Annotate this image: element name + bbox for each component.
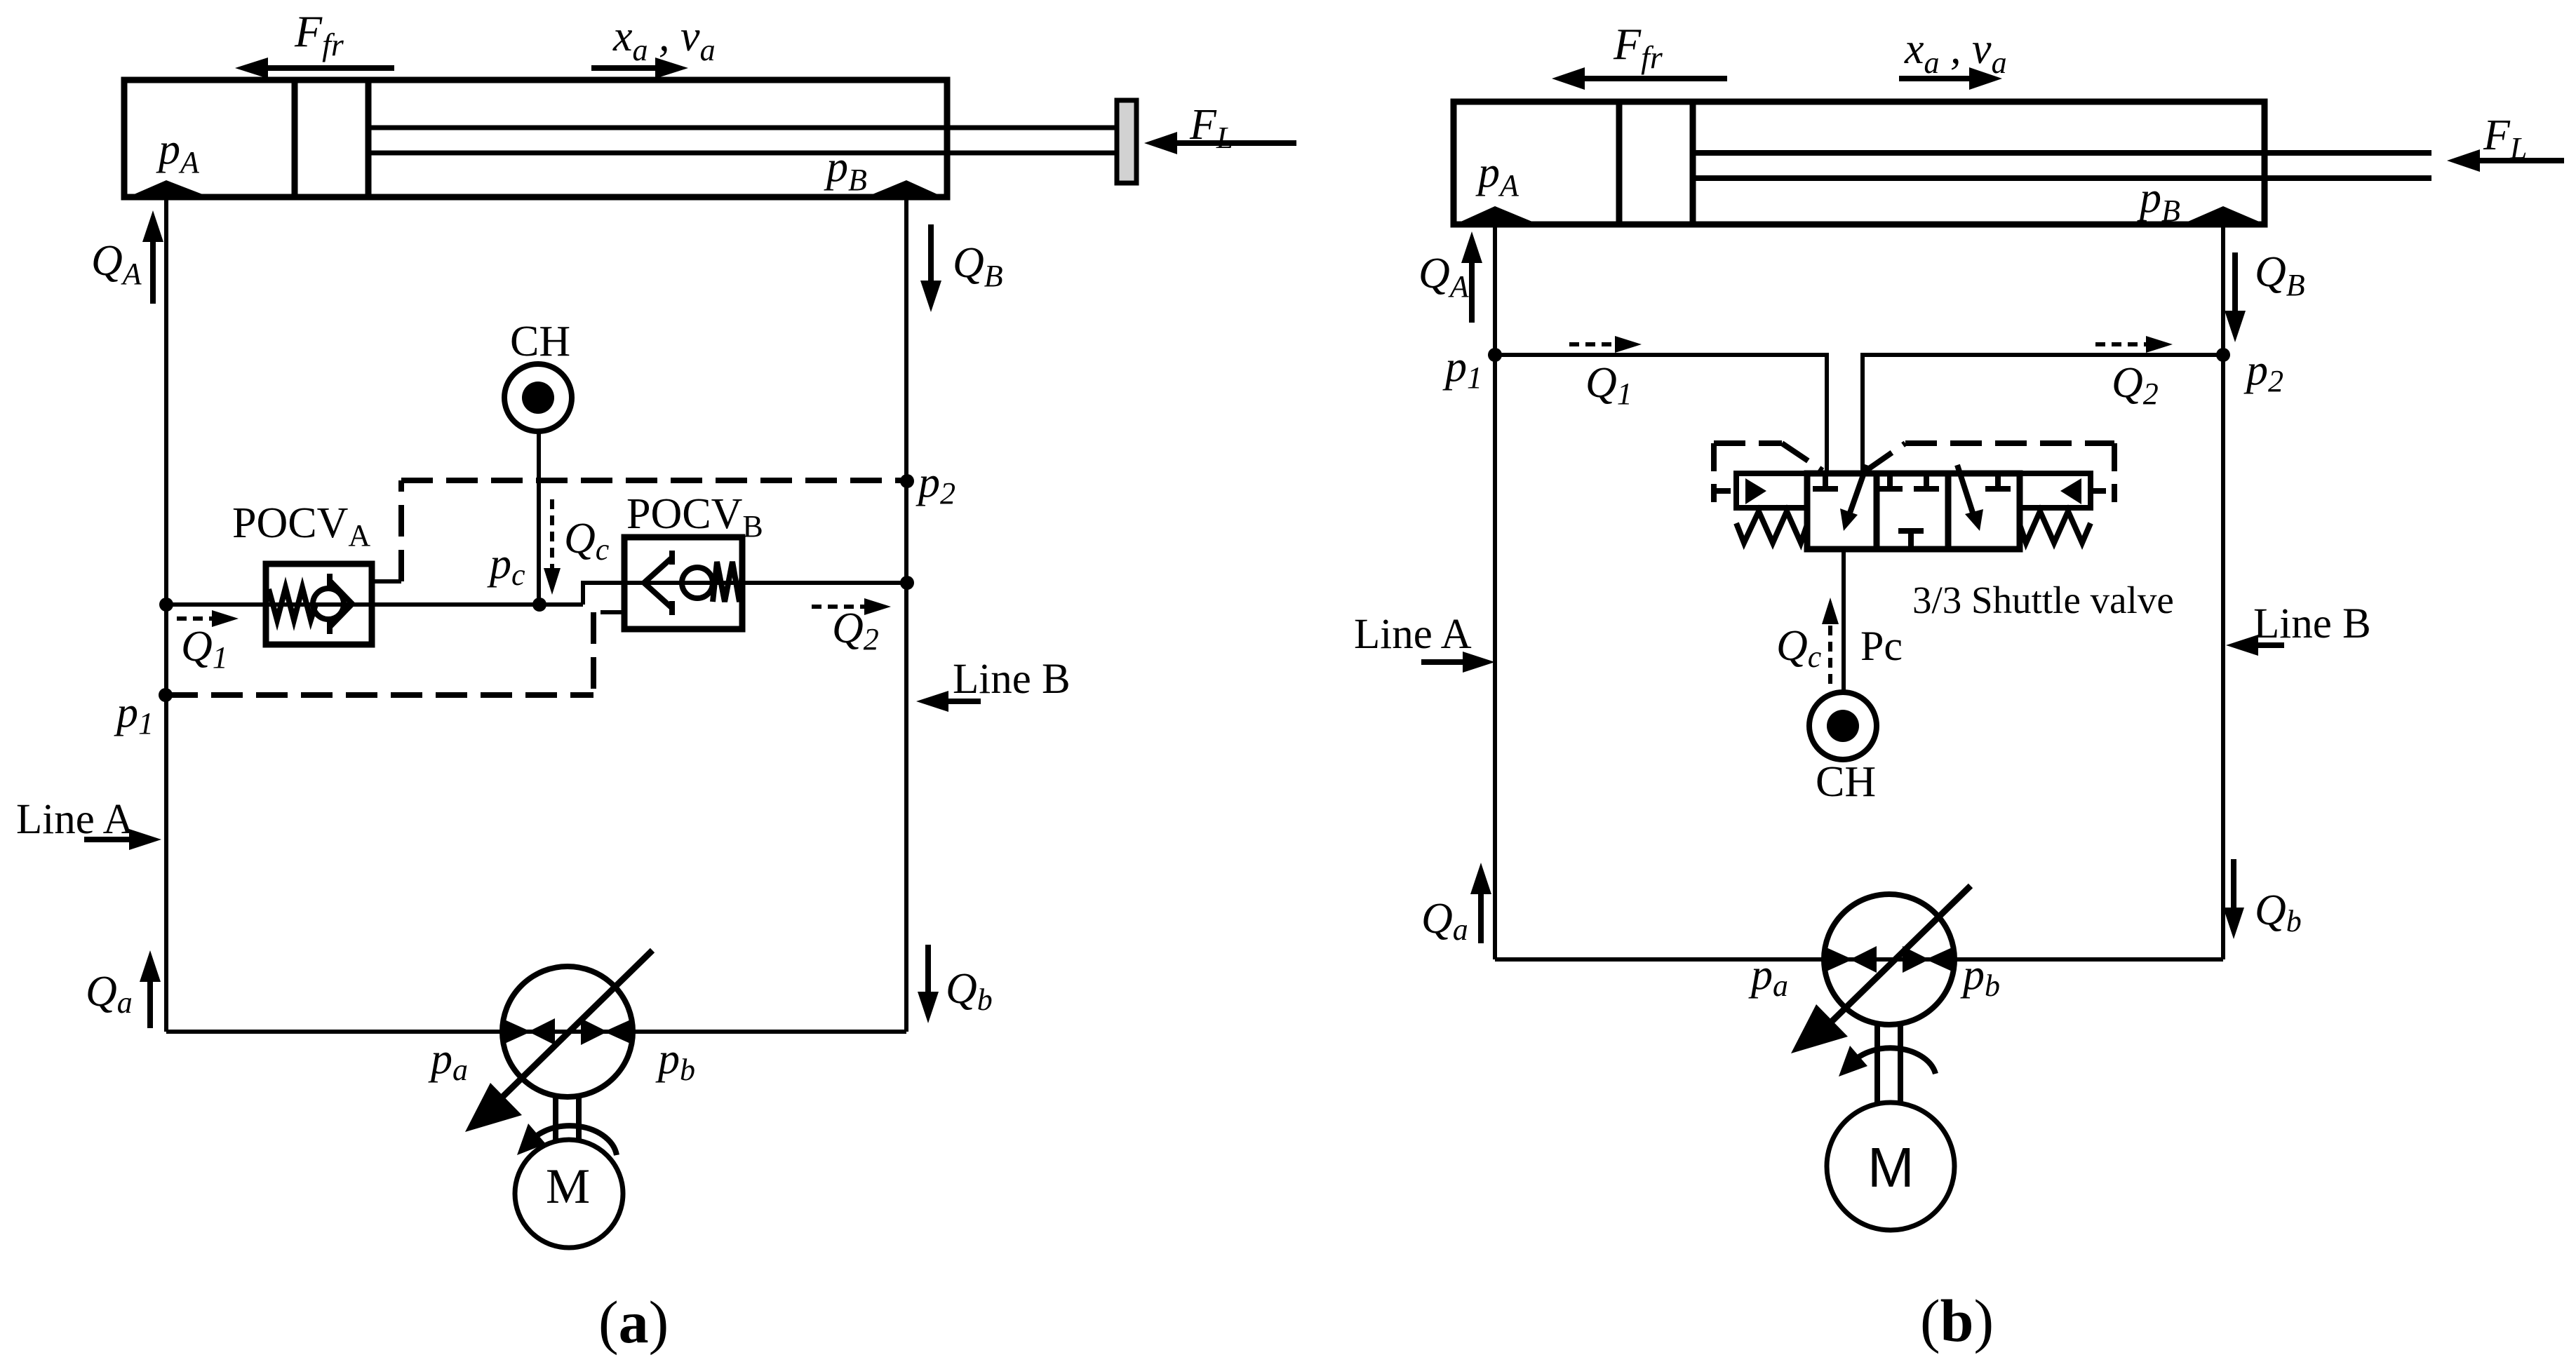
flow arrow Q_1 (b) [1569, 336, 1642, 353]
POCV_A check ball [313, 588, 344, 619]
piston (a) [295, 80, 368, 197]
friction force F_fr arrow (b) [1552, 67, 1727, 90]
POCV_A spring [269, 588, 316, 620]
valve box3 flow arrow [1957, 465, 1983, 531]
flow arrow Q_A (a) [142, 210, 163, 304]
node p2 (b) [2216, 348, 2230, 362]
svg-text:CH: CH [1816, 758, 1876, 806]
bottom wire (b) [1495, 957, 2223, 962]
POCV_A pilot stub [372, 579, 401, 584]
flow arrow Q_1 (a) [177, 610, 239, 627]
flow arrow Q_a (a) [140, 950, 161, 1028]
shuttle valve dashed outline [1714, 443, 2114, 502]
valve box1 flow arrow [1840, 465, 1867, 531]
Line A arrow (b) [1421, 652, 1495, 673]
wire line A vertical (a) [164, 198, 168, 1032]
POCV_B box [624, 537, 742, 629]
valve box3 blocked port [1985, 473, 2011, 489]
shuttle valve right pilot box [2020, 473, 2091, 508]
flow arrow Q_a (b) [1470, 863, 1491, 943]
POCV_B spring [713, 562, 742, 602]
cylinder (b) barrel [1454, 102, 2265, 224]
POCV_B check ball [682, 567, 713, 598]
port A triangle (a) [128, 180, 210, 197]
rotation arrow (a) [517, 1124, 617, 1155]
pump (b) triangles [1823, 946, 1955, 973]
bottom wire (a) [166, 1030, 906, 1034]
flow arrow Q_b (a) [918, 945, 939, 1023]
node valve outlet (a) [900, 576, 914, 590]
node p1 (b) [1488, 348, 1502, 362]
valve box1 blocked port [1813, 473, 1838, 489]
pump (a) triangles [502, 1018, 633, 1045]
cylinder (a) barrel [124, 80, 947, 197]
svg-text:3/3 Shuttle valve: 3/3 Shuttle valve [1912, 579, 2174, 621]
wire CH to node p_c (a) [537, 431, 541, 605]
POCV_A seat [330, 574, 352, 634]
motor (b) circle [1827, 1102, 1954, 1230]
x_a , v_a arrow (b) [1899, 67, 2002, 90]
node at line A junction (a) [159, 598, 173, 612]
valve box2 blocked ports [1877, 473, 1939, 549]
main valve line left segment (a) [166, 602, 583, 607]
svg-text:Line A: Line A [1354, 611, 1472, 658]
Line B arrow (a) [916, 691, 981, 712]
svg-text:Line A: Line A [16, 796, 134, 843]
p1 wire to valve (b) [1495, 355, 1827, 473]
svg-text:(b): (b) [1920, 1287, 1994, 1354]
POCV_B pilot stub [601, 610, 624, 614]
accumulator CH symbol (a) [504, 364, 572, 431]
pilot dashed line top to p2 (a) [401, 478, 906, 483]
svg-text:M: M [546, 1159, 590, 1214]
flow arrow Q_B (b) [2225, 252, 2246, 342]
rotation arrow (b) [1839, 1046, 1936, 1077]
port B triangle (a) [866, 180, 944, 197]
port A triangle (b) [1458, 206, 1536, 223]
flow arrow Q_2 (a) [812, 598, 891, 615]
wire line A vertical (b) [1493, 224, 1497, 959]
jog up to POCV_B (a) [583, 583, 906, 605]
pump shaft (b) [1877, 1023, 1900, 1105]
shuttle valve right spring [2020, 511, 2091, 543]
svg-text:Pc: Pc [1860, 623, 1903, 669]
shuttle valve right pilot triangle [2060, 478, 2081, 504]
force F_L arrow (b) [2447, 149, 2564, 172]
pump (a) variable displacement arrow [465, 950, 652, 1132]
piston rod (a) [368, 128, 1117, 153]
p2 wire to valve (b) [1863, 355, 2223, 473]
node p1 (a) [159, 688, 173, 702]
pump shaft (a) [556, 1095, 579, 1142]
load end plate (a) [1117, 100, 1136, 183]
pump (b) circle [1824, 894, 1954, 1025]
pilot dashed line bottom from p1 (a) [166, 692, 593, 698]
POCV_B seat [644, 551, 672, 615]
svg-text:Line B: Line B [953, 656, 1071, 703]
pilot flow arrow Q_c (b) [1822, 598, 1839, 684]
svg-text:(a): (a) [598, 1288, 669, 1356]
Line A arrow (a) [84, 829, 161, 850]
Line B arrow (b) [2226, 635, 2284, 656]
piston (b) [1619, 102, 1693, 224]
wire line B vertical (a) [904, 198, 908, 1032]
flow arrow Q_2 (b) [2095, 336, 2173, 353]
shuttle valve left pilot triangle [1745, 478, 1766, 504]
port B triangle (b) [2185, 206, 2262, 223]
accumulator CH symbol (b) [1809, 692, 1877, 760]
POCV_A box [266, 564, 372, 645]
flow arrow Q_b (b) [2223, 859, 2244, 939]
pump (b) variable displacement arrow [1791, 886, 1971, 1053]
svg-text:Line B: Line B [2253, 600, 2371, 647]
Pc wire from valve to CH (b) [1842, 549, 1846, 693]
svg-text:CH: CH [510, 318, 570, 365]
friction force F_fr arrow (a) [235, 58, 394, 79]
pilot flow arrow Q_c (a) [544, 499, 561, 595]
shuttle valve body boxes [1807, 473, 2020, 549]
shuttle valve left pilot box [1736, 473, 1807, 508]
POCV_A pilot dashed riser [398, 480, 404, 581]
POCV_B pilot dashed riser [591, 612, 596, 695]
wire line B vertical (b) [2221, 224, 2225, 959]
piston rod (b) [1693, 153, 2431, 178]
flow arrow Q_B (a) [920, 224, 941, 312]
force F_L arrow (a) [1144, 132, 1296, 154]
node p_c (a) [532, 598, 546, 612]
pump (a) circle [502, 966, 633, 1097]
motor (a) circle [515, 1140, 623, 1248]
x_a , v_a arrow (a) [591, 58, 688, 79]
flow arrow Q_A (b) [1461, 231, 1482, 323]
shuttle valve left spring [1736, 511, 1807, 543]
svg-text:M: M [1867, 1136, 1914, 1199]
node p2 (a) [900, 474, 914, 488]
